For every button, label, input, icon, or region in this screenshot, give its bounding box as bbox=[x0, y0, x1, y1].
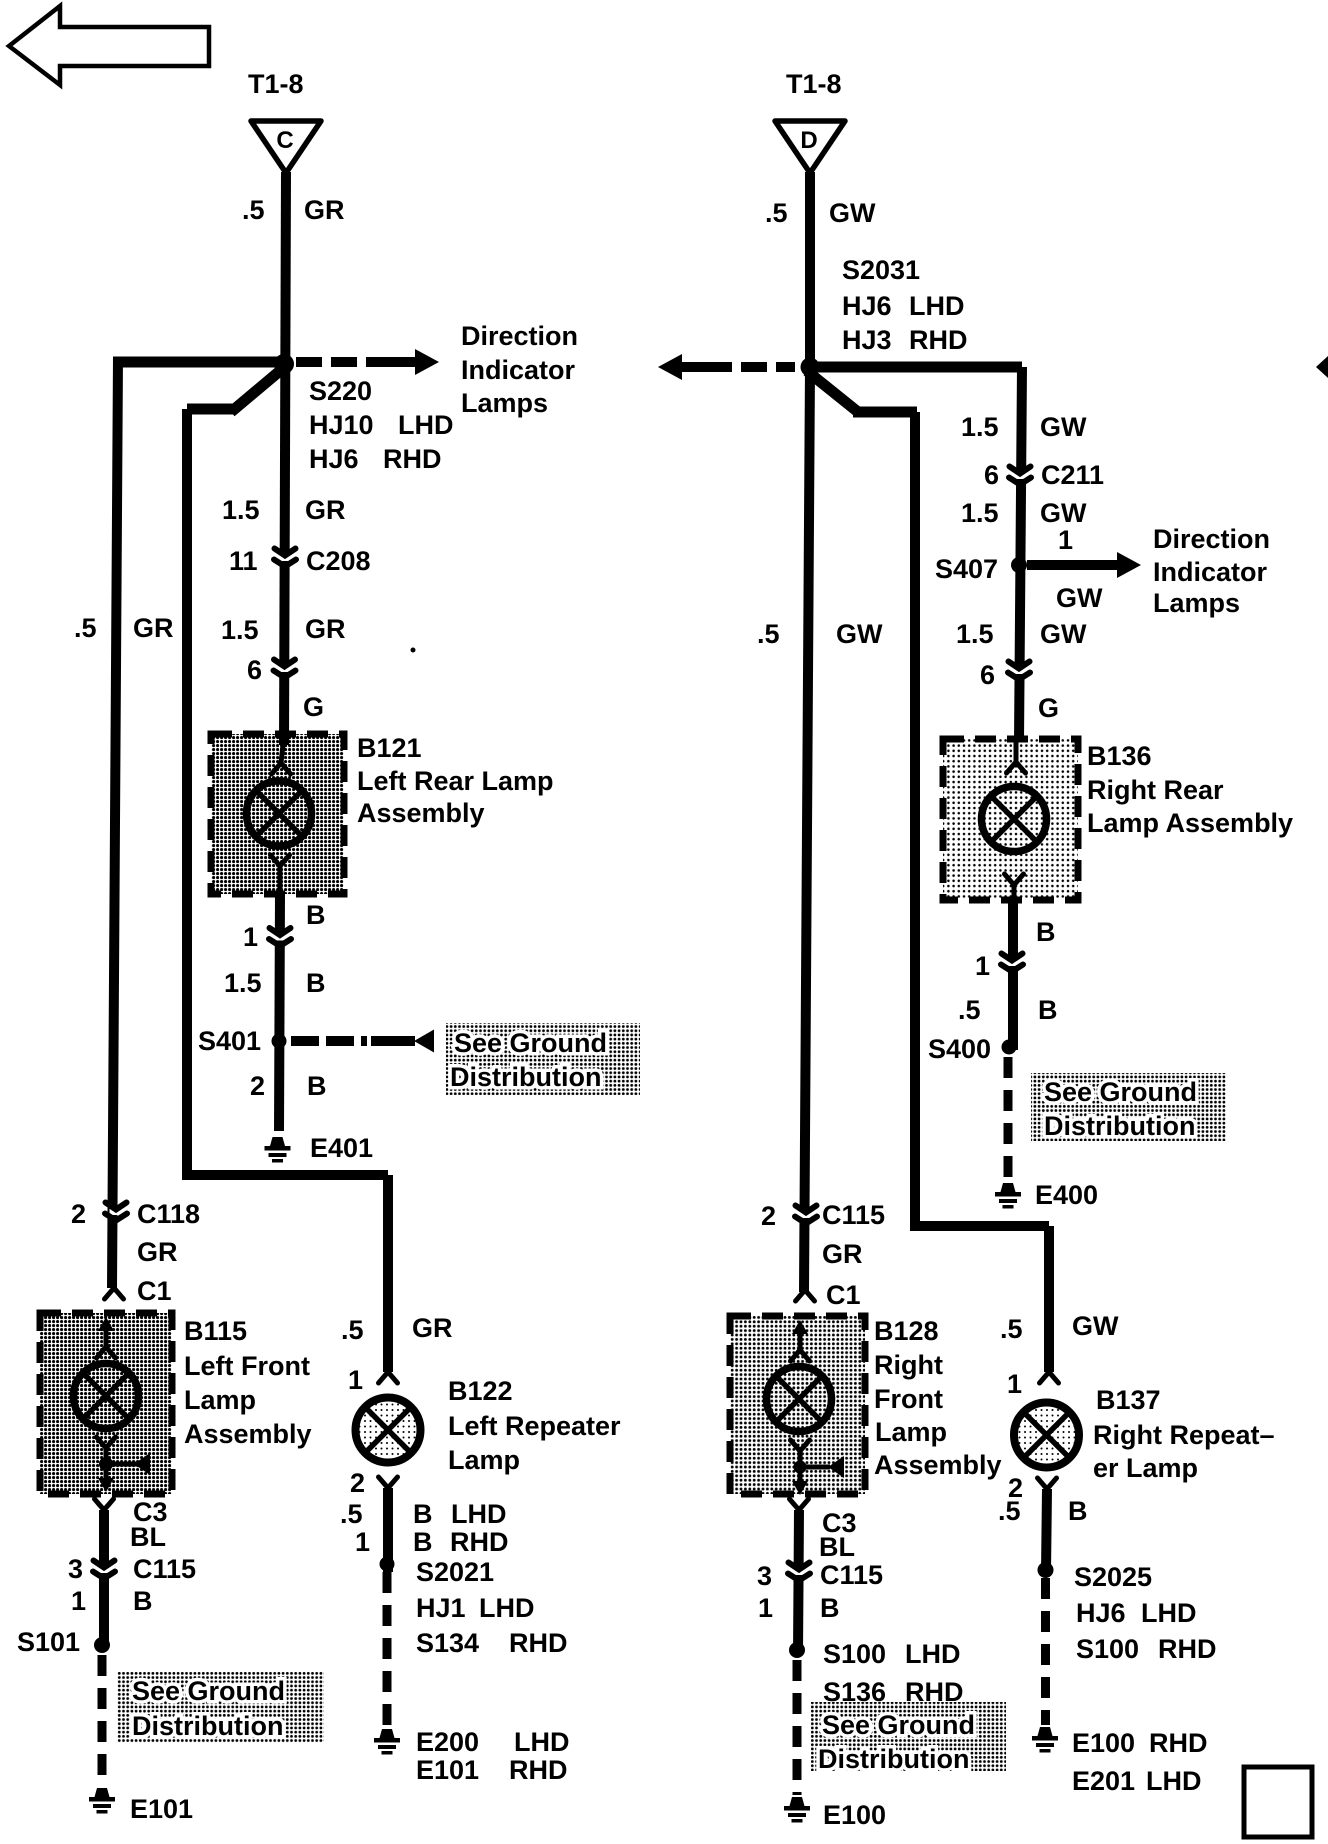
svg-text:Assembly: Assembly bbox=[874, 1450, 1002, 1480]
svg-text:1.5: 1.5 bbox=[221, 615, 259, 645]
svg-text:B136: B136 bbox=[1087, 741, 1152, 771]
svg-text:B: B bbox=[133, 1586, 153, 1616]
svg-text:RHD: RHD bbox=[450, 1527, 509, 1557]
svg-text:1: 1 bbox=[348, 1365, 363, 1395]
svg-text:Front: Front bbox=[874, 1384, 943, 1414]
svg-text:1: 1 bbox=[975, 951, 990, 981]
svg-text:E100: E100 bbox=[823, 1800, 886, 1830]
svg-text:S2031: S2031 bbox=[842, 255, 920, 285]
svg-text:.5: .5 bbox=[1000, 1314, 1023, 1344]
svg-text:HJ3: HJ3 bbox=[842, 325, 892, 355]
svg-text:B128: B128 bbox=[874, 1316, 939, 1346]
svg-text:.5: .5 bbox=[998, 1496, 1021, 1526]
svg-text:G: G bbox=[1038, 693, 1059, 723]
svg-text:.5: .5 bbox=[958, 995, 981, 1025]
svg-text:B: B bbox=[413, 1527, 433, 1557]
svg-text:LHD: LHD bbox=[479, 1593, 535, 1623]
svg-text:1.5: 1.5 bbox=[224, 968, 262, 998]
svg-text:See Ground: See Ground bbox=[822, 1710, 975, 1740]
svg-text:HJ6: HJ6 bbox=[309, 444, 359, 474]
svg-text:.5: .5 bbox=[341, 1315, 364, 1345]
svg-text:Distribution: Distribution bbox=[132, 1711, 283, 1741]
svg-text:1.5: 1.5 bbox=[961, 412, 999, 442]
svg-text:See Ground: See Ground bbox=[132, 1676, 285, 1706]
svg-text:GR: GR bbox=[305, 614, 346, 644]
svg-text:.5: .5 bbox=[765, 198, 788, 228]
svg-text:GW: GW bbox=[1072, 1311, 1119, 1341]
svg-text:E201: E201 bbox=[1072, 1766, 1135, 1796]
svg-text:C1: C1 bbox=[137, 1276, 172, 1306]
svg-text:GW: GW bbox=[1056, 583, 1103, 613]
svg-text:B: B bbox=[1036, 917, 1056, 947]
svg-text:Direction: Direction bbox=[1153, 524, 1270, 554]
svg-text:2: 2 bbox=[71, 1199, 86, 1229]
svg-text:E401: E401 bbox=[310, 1133, 373, 1163]
svg-text:B: B bbox=[306, 900, 326, 930]
svg-text:RHD: RHD bbox=[509, 1628, 568, 1658]
svg-text:1: 1 bbox=[1058, 525, 1073, 555]
svg-text:Lamp Assembly: Lamp Assembly bbox=[1087, 808, 1293, 838]
svg-text:B: B bbox=[1068, 1496, 1088, 1526]
svg-text:Right Rear: Right Rear bbox=[1087, 775, 1224, 805]
svg-text:1: 1 bbox=[355, 1527, 370, 1557]
svg-text:1.5: 1.5 bbox=[956, 619, 994, 649]
svg-text:GR: GR bbox=[412, 1313, 453, 1343]
svg-text:LHD: LHD bbox=[905, 1639, 961, 1669]
svg-text:S134: S134 bbox=[416, 1628, 479, 1658]
svg-text:6: 6 bbox=[984, 460, 999, 490]
svg-text:2: 2 bbox=[250, 1071, 265, 1101]
svg-text:Distribution: Distribution bbox=[450, 1062, 601, 1092]
svg-text:6: 6 bbox=[247, 655, 262, 685]
svg-text:GW: GW bbox=[1040, 498, 1087, 528]
svg-text:GW: GW bbox=[1040, 619, 1087, 649]
svg-text:C115: C115 bbox=[820, 1560, 883, 1590]
svg-text:C208: C208 bbox=[306, 546, 371, 576]
svg-text:S401: S401 bbox=[198, 1026, 261, 1056]
svg-text:GR: GR bbox=[137, 1237, 178, 1267]
svg-text:S136: S136 bbox=[823, 1677, 886, 1707]
svg-text:Left Front: Left Front bbox=[184, 1351, 310, 1381]
svg-text:1.5: 1.5 bbox=[222, 495, 260, 525]
svg-text:HJ6: HJ6 bbox=[842, 291, 892, 321]
svg-text:S2025: S2025 bbox=[1074, 1562, 1152, 1592]
svg-text:Direction: Direction bbox=[461, 321, 578, 351]
svg-text:B: B bbox=[820, 1593, 840, 1623]
svg-text:S2021: S2021 bbox=[416, 1557, 494, 1587]
svg-text:GW: GW bbox=[1040, 412, 1087, 442]
svg-text:Right: Right bbox=[874, 1350, 943, 1380]
svg-text:C211: C211 bbox=[1041, 460, 1104, 490]
svg-text:G: G bbox=[303, 692, 324, 722]
svg-text:S400: S400 bbox=[928, 1034, 991, 1064]
svg-text:Lamps: Lamps bbox=[461, 388, 548, 418]
svg-text:B: B bbox=[413, 1499, 433, 1529]
svg-text:3: 3 bbox=[68, 1554, 83, 1584]
svg-text:2: 2 bbox=[761, 1201, 776, 1231]
svg-text:Lamp: Lamp bbox=[448, 1445, 520, 1475]
svg-text:RHD: RHD bbox=[905, 1677, 964, 1707]
svg-text:S220: S220 bbox=[309, 376, 372, 406]
svg-text:B: B bbox=[307, 1071, 327, 1101]
svg-text:Lamps: Lamps bbox=[1153, 588, 1240, 618]
svg-text:S100: S100 bbox=[823, 1639, 886, 1669]
svg-text:C1: C1 bbox=[826, 1280, 861, 1310]
svg-text:Right Repeat–: Right Repeat– bbox=[1093, 1420, 1275, 1450]
svg-text:Distribution: Distribution bbox=[818, 1744, 969, 1774]
svg-text:GR: GR bbox=[822, 1239, 863, 1269]
svg-text:Distribution: Distribution bbox=[1044, 1111, 1195, 1141]
svg-text:C115: C115 bbox=[133, 1554, 196, 1584]
svg-text:2: 2 bbox=[350, 1468, 365, 1498]
svg-text:1.5: 1.5 bbox=[961, 498, 999, 528]
svg-text:BL: BL bbox=[130, 1522, 166, 1552]
svg-text:11: 11 bbox=[229, 546, 258, 576]
svg-text:er Lamp: er Lamp bbox=[1093, 1453, 1198, 1483]
svg-text:Left Repeater: Left Repeater bbox=[448, 1411, 621, 1441]
svg-text:T1-8: T1-8 bbox=[786, 69, 842, 99]
svg-text:E101: E101 bbox=[416, 1755, 479, 1785]
svg-text:RHD: RHD bbox=[509, 1755, 568, 1785]
svg-text:Indicator: Indicator bbox=[1153, 557, 1268, 587]
svg-text:S407: S407 bbox=[935, 554, 998, 584]
svg-text:.5: .5 bbox=[74, 613, 97, 643]
svg-text:1: 1 bbox=[758, 1593, 773, 1623]
svg-text:E200: E200 bbox=[416, 1727, 479, 1757]
svg-text:RHD: RHD bbox=[1158, 1634, 1217, 1664]
svg-text:HJ6: HJ6 bbox=[1076, 1598, 1126, 1628]
svg-text:Lamp: Lamp bbox=[184, 1385, 256, 1415]
svg-text:B: B bbox=[306, 968, 326, 998]
svg-text:GR: GR bbox=[304, 195, 345, 225]
svg-text:B115: B115 bbox=[184, 1316, 247, 1346]
svg-text:LHD: LHD bbox=[398, 410, 454, 440]
svg-text:S100: S100 bbox=[1076, 1634, 1139, 1664]
svg-text:C118: C118 bbox=[137, 1199, 200, 1229]
svg-text:Lamp: Lamp bbox=[875, 1417, 947, 1447]
svg-text:See Ground: See Ground bbox=[454, 1028, 607, 1058]
svg-text:3: 3 bbox=[757, 1561, 772, 1591]
svg-text:Assembly: Assembly bbox=[184, 1419, 312, 1449]
svg-text:LHD: LHD bbox=[514, 1727, 570, 1757]
svg-text:E400: E400 bbox=[1035, 1180, 1098, 1210]
svg-text:GR: GR bbox=[305, 495, 346, 525]
svg-text:.5: .5 bbox=[757, 619, 780, 649]
svg-text:HJ1: HJ1 bbox=[416, 1593, 466, 1623]
svg-text:C: C bbox=[276, 127, 293, 154]
svg-text:1: 1 bbox=[71, 1586, 86, 1616]
svg-text:S101: S101 bbox=[17, 1627, 80, 1657]
svg-text:GW: GW bbox=[836, 619, 883, 649]
svg-text:D: D bbox=[800, 127, 817, 154]
svg-text:.5: .5 bbox=[242, 195, 265, 225]
svg-text:6: 6 bbox=[980, 660, 995, 690]
svg-text:B137: B137 bbox=[1096, 1385, 1161, 1415]
svg-text:C115: C115 bbox=[822, 1200, 885, 1230]
svg-text:RHD: RHD bbox=[383, 444, 442, 474]
svg-text:LHD: LHD bbox=[451, 1499, 507, 1529]
svg-text:Assembly: Assembly bbox=[357, 798, 485, 828]
svg-text:RHD: RHD bbox=[909, 325, 968, 355]
svg-text:GW: GW bbox=[829, 198, 876, 228]
svg-text:1: 1 bbox=[1007, 1369, 1022, 1399]
svg-text:BL: BL bbox=[819, 1532, 855, 1562]
svg-text:RHD: RHD bbox=[1149, 1728, 1208, 1758]
svg-text:LHD: LHD bbox=[1141, 1598, 1197, 1628]
svg-text:GR: GR bbox=[133, 613, 174, 643]
svg-text:B: B bbox=[1038, 995, 1058, 1025]
svg-text:Left Rear Lamp: Left Rear Lamp bbox=[357, 766, 554, 796]
svg-text:B122: B122 bbox=[448, 1376, 513, 1406]
svg-text:LHD: LHD bbox=[909, 291, 965, 321]
svg-text:E100: E100 bbox=[1072, 1728, 1135, 1758]
svg-text:T1-8: T1-8 bbox=[248, 69, 304, 99]
svg-text:HJ10: HJ10 bbox=[309, 410, 374, 440]
svg-text:B121: B121 bbox=[357, 733, 422, 763]
svg-text:LHD: LHD bbox=[1146, 1766, 1202, 1796]
svg-text:.5: .5 bbox=[340, 1499, 363, 1529]
svg-text:E101: E101 bbox=[130, 1794, 193, 1824]
svg-text:See Ground: See Ground bbox=[1044, 1077, 1197, 1107]
svg-text:Indicator: Indicator bbox=[461, 355, 576, 385]
svg-text:1: 1 bbox=[243, 922, 258, 952]
